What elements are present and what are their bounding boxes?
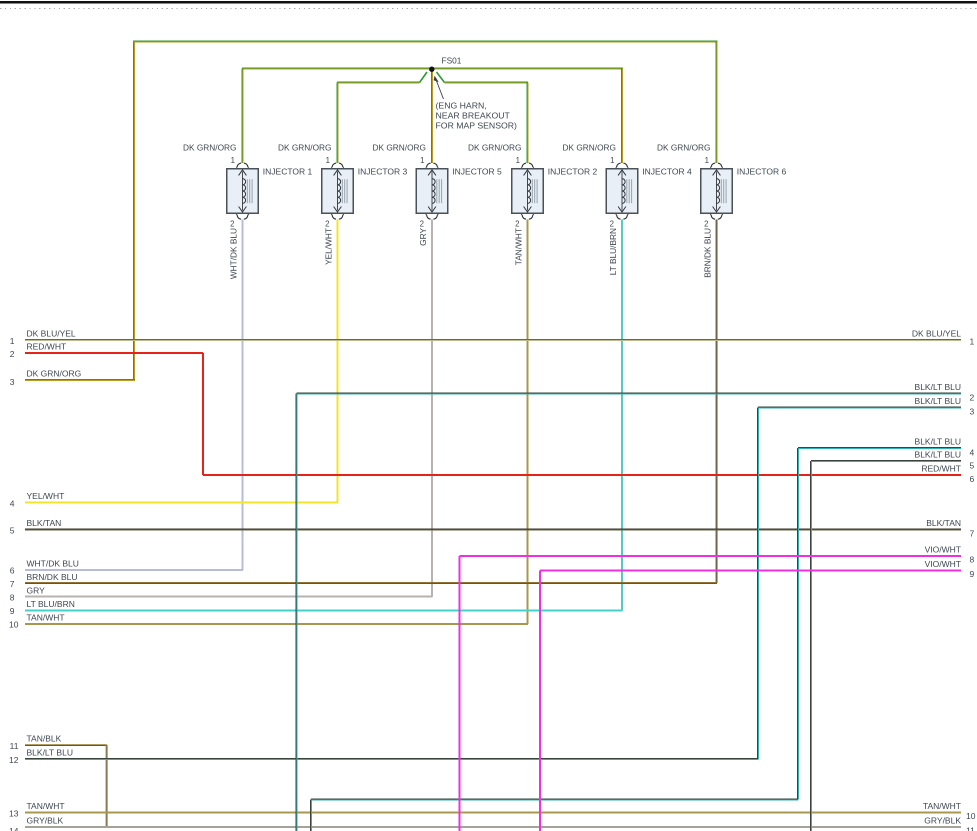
- svg-text:1: 1: [326, 156, 330, 165]
- wire 10 TAN/WHT right label: [923, 801, 976, 821]
- svg-text:TAN/WHT: TAN/WHT: [923, 801, 961, 811]
- wire 6 WHT/DK BLU: [10, 558, 243, 575]
- svg-text:9: 9: [10, 606, 15, 616]
- svg-text:BLK/TAN: BLK/TAN: [926, 518, 961, 528]
- wire DK GRN/ORG branch bus right: [445, 82, 529, 83]
- wire DK GRN/ORG left riser: [134, 41, 135, 381]
- wire BLK/LT BLU drop at x811: [811, 461, 812, 831]
- wire DK GRN/ORG injector 3 feed: [337, 83, 338, 164]
- wire BLK/LT BLU bottom run: [311, 799, 798, 800]
- wire YEL/WHT injector 3 pin 2 drop: [337, 219, 338, 502]
- wire 11 GRY/BLK right label: [924, 816, 975, 831]
- wire DK GRN/ORG splice bus: [242, 68, 623, 69]
- svg-text:1: 1: [516, 156, 520, 165]
- wire 14 GRY/BLK full: [9, 816, 961, 831]
- svg-text:RED/WHT: RED/WHT: [921, 464, 961, 474]
- svg-text:5: 5: [970, 461, 975, 471]
- svg-text:WHT/DK BLU: WHT/DK BLU: [27, 558, 79, 568]
- svg-text:11: 11: [966, 826, 975, 831]
- wire 9 VIO/WHT: [540, 559, 975, 579]
- injector INJECTOR 2: [468, 143, 597, 229]
- svg-text:DK GRN/ORG: DK GRN/ORG: [278, 143, 331, 153]
- wire 8 GRY: [10, 585, 433, 602]
- svg-text:FS01: FS01: [442, 56, 462, 66]
- svg-text:1: 1: [970, 337, 975, 347]
- svg-text:12: 12: [9, 755, 19, 765]
- svg-text:VIO/WHT: VIO/WHT: [925, 545, 961, 555]
- svg-text:9: 9: [970, 569, 975, 579]
- svg-text:3: 3: [10, 377, 15, 387]
- wire 11 TAN/BLK: [10, 734, 107, 751]
- svg-text:6: 6: [10, 566, 15, 576]
- injector INJECTOR 4: [563, 143, 692, 229]
- svg-text:INJECTOR 4: INJECTOR 4: [642, 167, 692, 177]
- svg-text:DK GRN/ORG: DK GRN/ORG: [563, 143, 616, 153]
- wire 1 DK BLU/YEL right label: [912, 329, 975, 347]
- svg-text:2: 2: [10, 349, 15, 359]
- wire DK GRN/ORG injector 2 feed: [527, 83, 528, 164]
- svg-text:1: 1: [705, 156, 709, 165]
- svg-text:DK BLU/YEL: DK BLU/YEL: [912, 329, 961, 339]
- svg-text:7: 7: [970, 529, 975, 539]
- svg-text:INJECTOR 1: INJECTOR 1: [263, 167, 313, 177]
- svg-text:1: 1: [610, 156, 614, 165]
- wire BLK/LT BLU drop at x296: [296, 394, 297, 831]
- svg-text:INJECTOR 6: INJECTOR 6: [737, 167, 787, 177]
- svg-text:LT BLU/BRN: LT BLU/BRN: [608, 228, 618, 275]
- svg-text:RED/WHT: RED/WHT: [27, 342, 67, 352]
- svg-text:BLK/LT BLU: BLK/LT BLU: [915, 382, 961, 392]
- svg-text:GRY: GRY: [418, 228, 428, 246]
- svg-text:1: 1: [10, 336, 15, 346]
- svg-text:2: 2: [970, 393, 975, 403]
- wire DK GRN/ORG top bus: [133, 41, 718, 42]
- svg-text:BLK/LT BLU: BLK/LT BLU: [915, 437, 961, 447]
- svg-text:BRN/DK BLU: BRN/DK BLU: [27, 572, 78, 582]
- svg-text:1: 1: [231, 156, 235, 165]
- wire 7 BLK/TAN right label: [926, 518, 974, 538]
- svg-text:2: 2: [230, 220, 234, 229]
- svg-text:DK GRN/ORG: DK GRN/ORG: [27, 369, 82, 379]
- svg-text:2: 2: [420, 220, 424, 229]
- wire 9 LT BLU/BRN: [10, 599, 623, 616]
- wire BRN/DK BLU injector 6 pin 2 drop: [716, 219, 717, 583]
- svg-text:8: 8: [970, 555, 975, 565]
- wire DK GRN/ORG splice branch left diagonal: [420, 72, 428, 83]
- svg-text:8: 8: [10, 593, 15, 603]
- wire LT BLU/BRN injector 4 pin 2 drop: [622, 219, 623, 610]
- wire DK GRN/ORG branch bus left: [337, 82, 420, 83]
- svg-text:4: 4: [970, 448, 975, 458]
- wire 1 DK BLU/YEL: [10, 329, 961, 346]
- label YEL/WHT (rotated): [324, 228, 334, 265]
- svg-text:BLK/LT BLU: BLK/LT BLU: [27, 748, 73, 758]
- label TAN/WHT (rotated): [514, 228, 524, 265]
- svg-text:TAN/BLK: TAN/BLK: [27, 734, 62, 744]
- note ENG HARN NEAR BREAKOUT FOR MAP SENSOR with arrow to FS01: [434, 76, 517, 131]
- label GRY (rotated): [418, 228, 428, 246]
- svg-text:BLK/LT BLU: BLK/LT BLU: [915, 450, 961, 460]
- wire GRY injector 5 pin 2 drop: [432, 219, 433, 596]
- svg-text:YEL/WHT: YEL/WHT: [324, 228, 334, 265]
- svg-text:13: 13: [9, 808, 19, 818]
- svg-text:GRY/BLK: GRY/BLK: [924, 816, 961, 826]
- svg-text:7: 7: [10, 579, 15, 589]
- svg-text:INJECTOR 5: INJECTOR 5: [452, 167, 502, 177]
- wire 2 BLK/LT BLU right top: [297, 382, 975, 402]
- svg-text:NEAR BREAKOUT: NEAR BREAKOUT: [436, 111, 511, 121]
- label LT BLU/BRN (rotated): [608, 228, 618, 275]
- wire 5 BLK/LT BLU: [811, 450, 975, 471]
- svg-text:DK GRN/ORG: DK GRN/ORG: [468, 143, 521, 153]
- svg-text:2: 2: [515, 220, 519, 229]
- svg-text:WHT/DK BLU: WHT/DK BLU: [229, 228, 239, 279]
- injector INJECTOR 3: [278, 143, 407, 229]
- wire RED/WHT riser: [203, 353, 204, 475]
- svg-text:TAN/WHT: TAN/WHT: [514, 228, 524, 265]
- wire TAN/WHT injector 2 pin 2 drop: [527, 219, 528, 624]
- wire 3 BLK/LT BLU: [758, 396, 975, 416]
- wire DK GRN/ORG injector 6 feed: [716, 42, 717, 164]
- wire 12 BLK/LT BLU: [9, 748, 758, 765]
- wire 4 BLK/LT BLU: [798, 437, 975, 458]
- svg-text:4: 4: [10, 498, 15, 508]
- svg-text:DK BLU/YEL: DK BLU/YEL: [27, 329, 76, 339]
- injector INJECTOR 5: [373, 143, 502, 229]
- svg-text:11: 11: [10, 741, 19, 751]
- svg-text:2: 2: [704, 220, 708, 229]
- wire 5 BLK/TAN: [10, 518, 961, 535]
- svg-text:TAN/WHT: TAN/WHT: [27, 613, 65, 623]
- wire DK GRN/ORG splice branch right diagonal: [437, 72, 445, 83]
- svg-text:YEL/WHT: YEL/WHT: [27, 491, 65, 501]
- svg-text:BLK/LT BLU: BLK/LT BLU: [915, 396, 961, 406]
- svg-text:(ENG HARN,: (ENG HARN,: [436, 101, 487, 111]
- svg-text:FOR MAP SENSOR): FOR MAP SENSOR): [436, 121, 518, 131]
- wire 3 DK GRN/ORG stub: [10, 369, 135, 387]
- wire 4 YEL/WHT: [10, 491, 338, 508]
- wire WHT/DK BLU injector 1 pin 2 drop: [242, 219, 243, 569]
- svg-text:GRY: GRY: [27, 585, 46, 595]
- svg-text:5: 5: [10, 525, 15, 535]
- svg-text:14: 14: [9, 826, 19, 831]
- wire VIO/WHT drop at x459: [459, 556, 460, 831]
- wire 6 RED/WHT right label: [921, 464, 974, 484]
- svg-text:1: 1: [420, 156, 424, 165]
- wire 2 RED/WHT left segment: [10, 342, 203, 359]
- svg-text:BLK/TAN: BLK/TAN: [27, 518, 62, 528]
- svg-text:DK GRN/ORG: DK GRN/ORG: [183, 143, 236, 153]
- svg-text:3: 3: [970, 407, 975, 417]
- wire TAN/BLK drop: [106, 745, 107, 827]
- svg-text:DK GRN/ORG: DK GRN/ORG: [373, 143, 426, 153]
- wire BLK/LT BLU riser at x798: [798, 448, 799, 800]
- label BRN/DK BLU (rotated): [703, 228, 713, 278]
- svg-text:10: 10: [9, 620, 19, 630]
- injector INJECTOR 6: [657, 143, 786, 229]
- wire DK GRN/ORG injector 5 feed: [432, 69, 433, 164]
- wire BLK/LT BLU riser at x758: [758, 408, 759, 760]
- svg-text:2: 2: [610, 220, 614, 229]
- wire BLK/LT BLU drop at x311: [311, 800, 312, 831]
- svg-text:LT BLU/BRN: LT BLU/BRN: [27, 599, 75, 609]
- wire VIO/WHT drop at x540: [540, 571, 541, 831]
- svg-text:TAN/WHT: TAN/WHT: [27, 801, 65, 811]
- wire 7 BRN/DK BLU: [10, 572, 717, 589]
- wire 13 TAN/WHT full: [9, 801, 961, 818]
- wire 8 VIO/WHT: [460, 545, 975, 565]
- svg-text:GRY/BLK: GRY/BLK: [27, 816, 64, 826]
- svg-text:6: 6: [970, 474, 975, 484]
- svg-text:INJECTOR 2: INJECTOR 2: [548, 167, 598, 177]
- svg-text:2: 2: [325, 220, 329, 229]
- wire 10 TAN/WHT: [9, 613, 528, 630]
- wire RED/WHT lower segment: [203, 475, 961, 476]
- svg-text:VIO/WHT: VIO/WHT: [925, 559, 961, 569]
- svg-text:INJECTOR 3: INJECTOR 3: [358, 167, 408, 177]
- svg-text:BRN/DK BLU: BRN/DK BLU: [703, 228, 713, 278]
- label WHT/DK BLU (rotated): [229, 228, 239, 279]
- wire DK GRN/ORG injector 4 feed: [622, 69, 623, 164]
- injector INJECTOR 1: [183, 143, 312, 229]
- svg-text:10: 10: [966, 811, 976, 821]
- svg-text:DK GRN/ORG: DK GRN/ORG: [657, 143, 710, 153]
- wire DK GRN/ORG injector 1 feed: [242, 69, 243, 164]
- splice FS01: [429, 56, 462, 72]
